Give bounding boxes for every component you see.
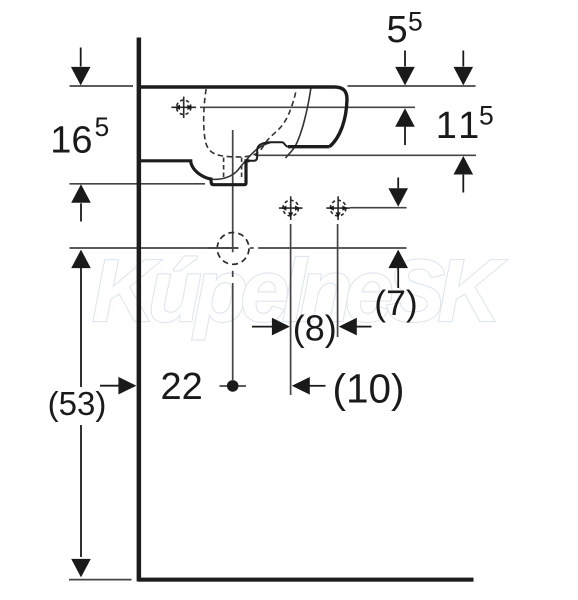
- svg-text:5: 5: [387, 9, 408, 51]
- svg-text:5: 5: [95, 112, 110, 142]
- svg-text:11: 11: [436, 105, 483, 147]
- svg-text:5: 5: [408, 7, 423, 37]
- svg-text:(53): (53): [48, 385, 107, 422]
- svg-text:(10): (10): [332, 366, 404, 412]
- svg-text:22: 22: [161, 366, 203, 408]
- svg-text:(7): (7): [374, 283, 417, 323]
- svg-text:5: 5: [479, 101, 494, 131]
- svg-text:(8): (8): [293, 308, 337, 349]
- svg-text:16: 16: [50, 120, 92, 162]
